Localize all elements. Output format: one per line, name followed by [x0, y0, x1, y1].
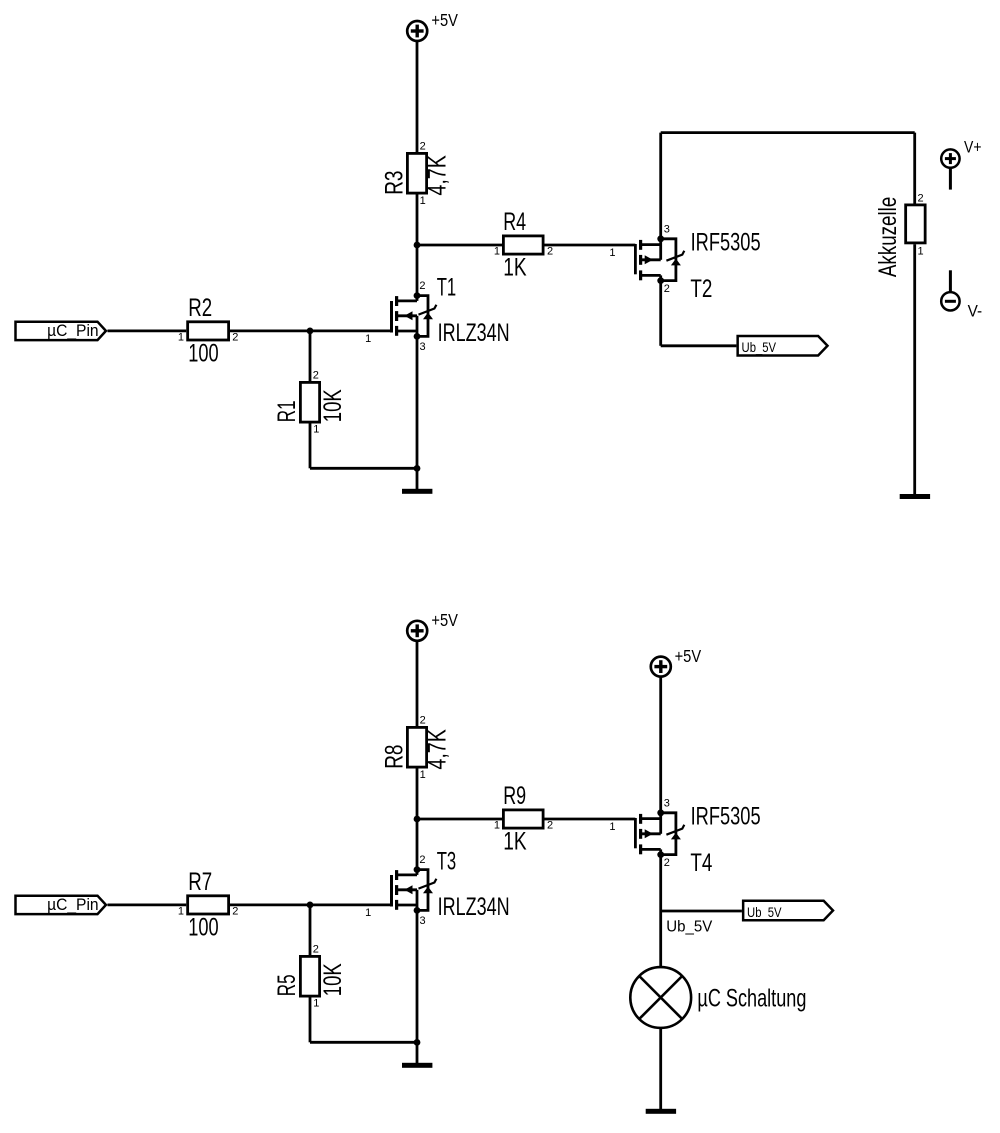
output flag Ub_5V (top)	[738, 336, 828, 356]
svg-text:10K: 10K	[319, 389, 347, 422]
svg-text:IRLZ34N: IRLZ34N	[438, 319, 510, 347]
svg-text:R8: R8	[380, 745, 408, 769]
svg-text:Ub_5V: Ub_5V	[666, 919, 712, 936]
svg-text:T3: T3	[437, 848, 457, 876]
wire +5V to R8	[416, 641, 419, 726]
wire T4 drain to lamp	[659, 911, 662, 967]
transistor T3 IRLZ34N	[390, 875, 393, 907]
svg-text:2: 2	[232, 331, 238, 343]
svg-text:1K: 1K	[503, 254, 527, 282]
wire R1 to bottom row	[309, 423, 312, 468]
resistor R4 1K	[503, 236, 543, 254]
svg-text:1: 1	[609, 247, 615, 259]
resistor R7 100	[188, 896, 229, 914]
svg-text:V-: V-	[968, 302, 983, 321]
resistor R1 10K	[300, 382, 319, 422]
svg-text:4,7K: 4,7K	[424, 155, 452, 196]
terminal V+	[941, 149, 959, 167]
wire node to T3 drain	[416, 819, 419, 867]
svg-text:R3: R3	[380, 171, 408, 195]
svg-text:1: 1	[365, 333, 371, 345]
svg-text:R1: R1	[273, 400, 301, 422]
svg-text:1: 1	[178, 905, 184, 917]
wire lamp to ground	[659, 1028, 662, 1109]
wire R3 to node	[416, 195, 419, 246]
node junction R5/T3 source	[414, 1039, 421, 1046]
resistor R9 1K	[503, 810, 543, 828]
wire T2 drain to Ub_5V flag	[661, 344, 737, 347]
svg-text:2: 2	[420, 714, 426, 726]
node junction R2/R1	[307, 328, 314, 335]
wire battery to ground	[913, 244, 916, 494]
ground battery	[900, 494, 930, 499]
wire R5 to bottom row	[309, 998, 312, 1043]
resistor R2 100	[188, 322, 229, 340]
wire R7 to T3 gate	[230, 904, 390, 907]
wire T4 drain down	[659, 857, 662, 911]
wire node to R9	[417, 818, 502, 821]
resistor R3 4,7K	[407, 153, 426, 193]
lamp uC Schaltung	[630, 967, 691, 1028]
svg-text:Ub_5V: Ub_5V	[747, 905, 782, 921]
resistor R8 4,7K	[407, 727, 426, 767]
battery cell Akkuzelle	[906, 205, 926, 243]
power +5V symbol (top)	[407, 21, 427, 41]
svg-text:Ub_5V: Ub_5V	[742, 340, 777, 356]
resistor R5 10K	[300, 956, 319, 996]
wire R2 to T1 gate	[230, 329, 390, 332]
wire node to R1	[309, 331, 312, 381]
svg-text:T2: T2	[690, 275, 712, 303]
svg-text:2: 2	[918, 193, 924, 205]
ground T1 source	[402, 489, 432, 494]
svg-text:2: 2	[664, 283, 670, 295]
svg-text:+5V: +5V	[675, 646, 702, 666]
svg-text:µC_Pin: µC_Pin	[47, 321, 99, 340]
svg-text:R7: R7	[188, 868, 212, 896]
svg-text:IRF5305: IRF5305	[691, 229, 761, 257]
transistor T2 IRF5305	[634, 244, 637, 274]
transistor T4 IRF5305	[634, 818, 637, 848]
terminal V-	[941, 292, 959, 310]
ground lamp	[646, 1109, 676, 1114]
svg-text:IRLZ34N: IRLZ34N	[438, 893, 510, 921]
node junction R7/R5	[307, 902, 314, 909]
wire node to T1 drain	[416, 245, 419, 293]
power +5V symbol (R8 branch)	[407, 621, 427, 641]
wire node to R5	[309, 905, 312, 955]
wire down to battery pin 2	[913, 133, 916, 204]
output flag Ub_5V (bottom)	[743, 901, 833, 921]
wire top horizontal to battery	[661, 131, 915, 134]
svg-text:2: 2	[419, 854, 425, 866]
svg-text:1: 1	[365, 907, 371, 919]
svg-text:1: 1	[918, 246, 924, 258]
svg-text:2: 2	[664, 857, 670, 869]
svg-text:R2: R2	[188, 294, 212, 322]
svg-text:1: 1	[420, 195, 426, 207]
wire node to R4	[417, 244, 502, 247]
svg-text:2: 2	[419, 280, 425, 292]
power +5V symbol (T4)	[651, 657, 671, 677]
wire T1 source down	[416, 336, 419, 489]
svg-text:3: 3	[420, 915, 426, 927]
svg-text:+5V: +5V	[431, 610, 458, 630]
svg-text:4,7K: 4,7K	[424, 729, 452, 770]
wire T2 drain down	[659, 283, 662, 346]
svg-text:Akkuzelle: Akkuzelle	[874, 197, 902, 277]
svg-text:T1: T1	[437, 274, 457, 302]
wire T4 drain to Ub_5V flag	[661, 910, 742, 913]
input flag uC_Pin (bottom)	[16, 896, 106, 914]
svg-text:1: 1	[178, 331, 184, 343]
svg-text:IRF5305: IRF5305	[691, 803, 761, 831]
svg-text:1: 1	[420, 769, 426, 781]
svg-text:3: 3	[664, 797, 670, 809]
svg-text:1: 1	[313, 424, 319, 436]
wire uC_Pin to R2	[108, 329, 187, 332]
svg-text:+5V: +5V	[431, 10, 458, 30]
svg-text:100: 100	[188, 914, 218, 942]
svg-text:10K: 10K	[319, 963, 347, 996]
node junction R3/R4/T1	[414, 242, 421, 249]
svg-text:2: 2	[313, 370, 319, 382]
svg-text:1: 1	[494, 246, 500, 258]
transistor T1 IRLZ34N	[390, 301, 393, 333]
svg-text:100: 100	[188, 340, 218, 368]
wire T3 source down	[416, 910, 419, 1063]
svg-text:1: 1	[313, 998, 319, 1010]
ground T3 source	[402, 1063, 432, 1068]
svg-text:V+: V+	[964, 138, 982, 157]
svg-text:R4: R4	[503, 208, 526, 236]
wire +5V to R3	[416, 42, 419, 153]
input flag uC_Pin (top)	[16, 322, 106, 340]
wire R8 to node	[416, 769, 419, 820]
wire uC_Pin to R7	[108, 904, 187, 907]
svg-text:µC_Pin: µC_Pin	[47, 895, 99, 914]
wire T2 source up	[659, 133, 662, 239]
svg-text:1K: 1K	[503, 828, 527, 856]
node junction R8/R9/T3	[414, 816, 421, 823]
wire +5V to T4 source	[659, 677, 662, 813]
wire bottom row to T3 source	[310, 1041, 417, 1044]
wire R9 to T4 gate	[545, 818, 636, 821]
svg-text:1: 1	[494, 820, 500, 832]
wire bottom row to T1 source	[310, 467, 417, 470]
svg-text:T4: T4	[690, 849, 712, 877]
svg-text:R9: R9	[503, 782, 526, 810]
svg-text:1: 1	[609, 821, 615, 833]
svg-text:2: 2	[232, 905, 238, 917]
svg-text:µC Schaltung: µC Schaltung	[697, 985, 806, 1013]
svg-text:2: 2	[420, 140, 426, 152]
wire R4 to T2 gate	[545, 244, 636, 247]
svg-text:R5: R5	[273, 974, 301, 996]
svg-text:2: 2	[547, 246, 553, 258]
svg-text:2: 2	[547, 820, 553, 832]
svg-text:3: 3	[664, 223, 670, 235]
svg-text:3: 3	[420, 341, 426, 353]
node junction R1/T1 source	[414, 465, 421, 472]
svg-text:2: 2	[313, 944, 319, 956]
